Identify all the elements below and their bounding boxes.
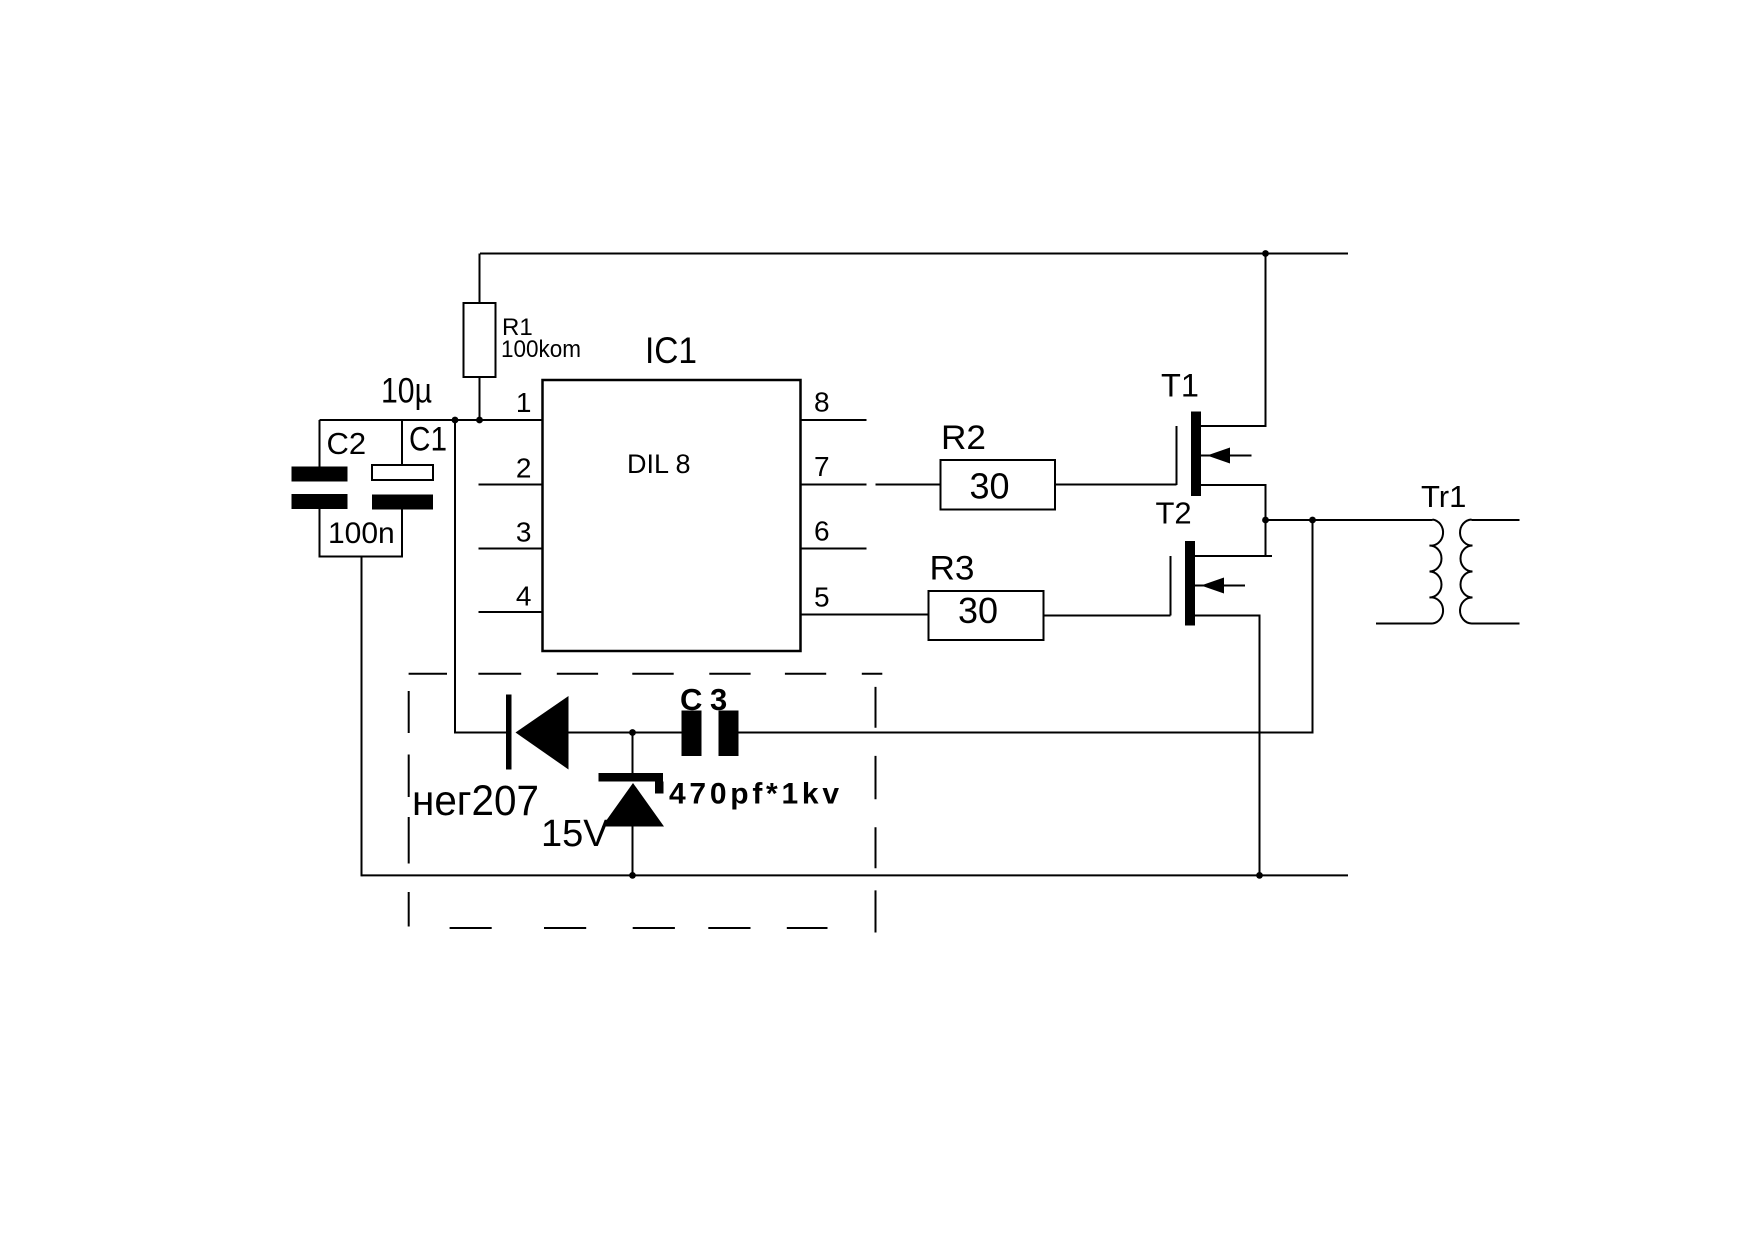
svg-text:100n: 100n <box>328 517 395 550</box>
wire pin 5 to R3 <box>801 614 929 616</box>
wire T1 source <box>1201 485 1266 520</box>
wire C3 to mid node riser <box>739 520 1313 733</box>
junction dot top rail at T1 drain riser <box>1262 250 1269 257</box>
svg-text:7: 7 <box>814 451 830 482</box>
wire transformer secondary bottom stub <box>1472 623 1520 625</box>
zener diode anode triangle <box>602 783 664 827</box>
wire mid node to transformer primary <box>1266 519 1433 521</box>
zener diode cathode bar <box>599 773 664 794</box>
junction dot node A at R1 lead <box>476 417 483 424</box>
svg-text:15V: 15V <box>541 813 609 855</box>
capacitor C2 bottom plate <box>292 494 348 509</box>
pin 4 stub <box>479 611 543 613</box>
junction dot mid node at T1 source <box>1262 517 1269 524</box>
capacitor C1 bottom plate <box>372 495 433 510</box>
svg-text:IC1: IC1 <box>645 330 697 371</box>
svg-text:1: 1 <box>516 387 532 418</box>
svg-text:T1: T1 <box>1161 368 1199 404</box>
svg-text:2: 2 <box>516 453 532 484</box>
pin 8 stub <box>801 419 867 421</box>
svg-text:R2: R2 <box>941 419 986 457</box>
wire zener top lead <box>632 733 634 775</box>
wire transformer primary bottom stub <box>1376 623 1433 625</box>
svg-text:C1: C1 <box>409 421 447 459</box>
junction dot mid node at C3 riser <box>1309 517 1316 524</box>
svg-text:C: C <box>680 682 702 717</box>
diode D1 cathode bar <box>506 695 512 770</box>
svg-text:10µ: 10µ <box>381 372 432 411</box>
wire pin 7 to R2 <box>876 484 941 486</box>
svg-text:30: 30 <box>970 466 1010 507</box>
pin 7 stub <box>801 484 867 486</box>
wire R1 top lead <box>479 254 481 305</box>
svg-text:470pf*1kv: 470pf*1kv <box>669 778 839 811</box>
svg-text:100kom: 100kom <box>501 336 581 363</box>
svg-text:Tr1: Tr1 <box>1421 479 1466 514</box>
dashed box left edge <box>408 691 410 927</box>
wire node A horizontal (C2,C1,R1 to IC pin 1) <box>320 419 543 421</box>
transistor T1 MOSFET <box>1177 412 1252 497</box>
svg-text:T2: T2 <box>1156 496 1192 531</box>
IC IC1 body DIL 8 <box>543 380 801 651</box>
pin 6 stub <box>801 548 867 550</box>
wire R1 bottom lead <box>479 377 481 420</box>
pin 2 stub <box>479 484 543 486</box>
wire T2 drain <box>1195 555 1272 557</box>
wire bottom rail <box>362 874 1349 876</box>
capacitor C1 top plate outlined <box>372 465 433 480</box>
capacitor C3 right plate <box>719 711 739 757</box>
wire zener bottom lead <box>632 826 634 875</box>
svg-text:30: 30 <box>958 590 998 631</box>
svg-text:C2: C2 <box>327 426 367 461</box>
wire capacitor bottom join <box>320 556 403 558</box>
svg-text:3: 3 <box>516 517 532 548</box>
diode D1 anode triangle <box>516 696 569 770</box>
svg-text:8: 8 <box>814 387 830 418</box>
resistor R3 <box>929 591 1044 640</box>
junction dot bottom rail at T2 source <box>1256 872 1263 879</box>
wire C1 top lead <box>401 420 403 465</box>
junction dot node A at diode branch <box>452 417 459 424</box>
svg-text:нег207: нег207 <box>412 777 539 825</box>
wire center drop to bottom rail <box>361 557 363 877</box>
transformer Tr1 secondary winding <box>1460 520 1473 624</box>
transistor T2 MOSFET <box>1171 541 1246 626</box>
wire T2 drain riser <box>1265 520 1267 556</box>
svg-text:R3: R3 <box>930 550 975 588</box>
svg-text:3: 3 <box>710 682 727 717</box>
svg-text:5: 5 <box>814 582 830 613</box>
wire top supply rail <box>480 253 1348 255</box>
wire R2 to T1 gate <box>1055 484 1177 486</box>
resistor R2 <box>941 460 1056 510</box>
dashed box top edge <box>409 673 883 675</box>
wire T2 source <box>1195 616 1260 876</box>
wire C1 bottom lead <box>401 510 403 558</box>
wire T1 drain <box>1201 254 1266 427</box>
capacitor C3 left plate <box>682 711 702 757</box>
dashed box bottom edge <box>450 927 828 929</box>
wire C2 bottom lead <box>319 509 321 558</box>
wire transformer secondary top stub <box>1472 519 1520 521</box>
transformer Tr1 primary winding <box>1430 520 1444 624</box>
svg-text:DIL 8: DIL 8 <box>627 449 691 479</box>
resistor R1 <box>464 303 496 377</box>
junction dot node B <box>629 729 636 736</box>
wire C2 top lead <box>319 420 321 467</box>
svg-text:6: 6 <box>814 516 830 547</box>
svg-text:4: 4 <box>516 581 532 612</box>
wire R3 to T2 gate <box>1044 615 1171 617</box>
dashed box right edge <box>875 687 877 933</box>
wire diode anode to node B <box>568 732 682 734</box>
wire diode branch drop <box>455 420 507 733</box>
pin 3 stub <box>479 548 543 550</box>
junction dot bottom rail at zener <box>629 872 636 879</box>
capacitor C2 top plate <box>292 467 348 482</box>
